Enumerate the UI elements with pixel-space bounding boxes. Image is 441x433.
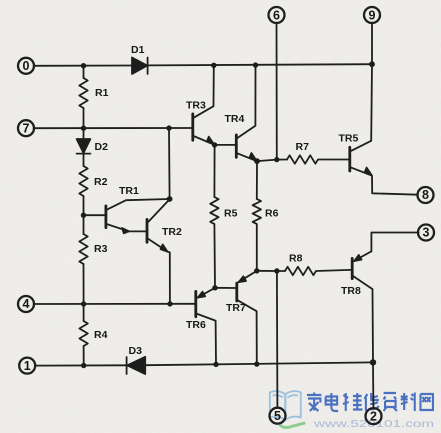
junction TR7-collector/bottom-rail xyxy=(254,361,259,366)
家 xyxy=(307,393,321,412)
junction TR2-emitter/TR6-base node 4 xyxy=(167,301,172,306)
transistor TR3 xyxy=(193,65,215,144)
电 xyxy=(326,393,338,411)
terminal 5 xyxy=(270,408,286,424)
junction R1/D2 node 7 xyxy=(81,126,86,131)
维 xyxy=(343,393,363,411)
junction R6/TR7-emitter/R8 xyxy=(254,268,259,273)
junction node 6 end xyxy=(274,157,279,162)
terminal 2 xyxy=(366,408,382,424)
diode D2 xyxy=(77,128,91,166)
junction TR3-collector/top-rail xyxy=(211,63,216,68)
resistor R2 xyxy=(79,166,87,215)
resistor R8 xyxy=(285,267,351,275)
wire top rail node from D1 cathode to 9-line xyxy=(34,65,132,67)
diode D1 xyxy=(132,58,148,75)
wire 4-line xyxy=(34,303,195,305)
wire terminal 6 drop xyxy=(276,23,278,160)
wire bottom rail from terminal 1 to TR8 collector xyxy=(35,364,127,366)
terminal 3 xyxy=(418,225,434,241)
资 xyxy=(384,393,397,411)
terminal 0 xyxy=(18,58,34,74)
terminal 8 xyxy=(418,187,434,203)
junction R1/top-rail xyxy=(81,63,86,68)
diode D3 xyxy=(127,357,146,374)
wire R8 node rail xyxy=(257,270,285,272)
junction R3/R4 node 4 xyxy=(81,301,86,306)
transistor TR4 xyxy=(215,65,257,161)
junction TR3-emitter/TR4-base/R5 xyxy=(212,142,217,147)
watermark chinese text (pseudo glyphs) xyxy=(307,393,433,412)
transistor TR8 xyxy=(352,233,418,363)
resistor R7 xyxy=(287,155,349,163)
junction TR8-collector/bottom-rail node 2 xyxy=(370,359,376,365)
transistor TR5 xyxy=(350,141,418,195)
terminal 7 xyxy=(18,120,34,136)
resistor R6 xyxy=(253,161,261,271)
junction node 5 top xyxy=(274,268,279,273)
料 xyxy=(401,393,415,412)
resistor R3 xyxy=(79,215,87,304)
junction R5/TR6-emitter/TR7-base xyxy=(212,285,217,290)
junction TR1/TR2 collectors xyxy=(167,196,173,202)
resistor R4 xyxy=(79,304,87,366)
网 xyxy=(420,394,432,410)
junction R2/R3/TR1-base xyxy=(81,213,86,218)
修 xyxy=(364,393,378,411)
junction node 9/top-rail xyxy=(369,61,375,67)
transistor TR1 xyxy=(84,199,170,233)
watermark logo green swoosh xyxy=(281,423,305,427)
junction TR3-base node 7 xyxy=(166,125,171,130)
terminal 4 xyxy=(18,296,34,312)
terminal 1 xyxy=(19,358,35,374)
watermark logo book xyxy=(270,391,301,420)
terminal 9 xyxy=(364,7,380,23)
wire terminal 9 drop xyxy=(370,23,373,141)
wire terminal 5 drop xyxy=(276,271,279,408)
wire terminal 2 drop xyxy=(372,362,374,408)
wire node 7 to TR1/TR2 collectors xyxy=(168,128,171,199)
junction TR6-collector/bottom-rail xyxy=(213,362,218,367)
junction R4 node 1 xyxy=(81,363,86,368)
wire TR4 emitter node to R7 xyxy=(257,160,287,162)
wire 7-line xyxy=(34,127,192,129)
junction TR4-collector/top-rail xyxy=(253,62,258,67)
resistor R5 xyxy=(210,145,218,288)
transistor TR2 xyxy=(147,199,170,304)
transistor TR6 xyxy=(196,288,216,365)
terminal 6 xyxy=(269,7,285,23)
resistor R1 xyxy=(79,66,87,128)
transistor TR7 xyxy=(215,271,257,364)
junction TR4-emitter/R6/R7 xyxy=(254,158,260,164)
